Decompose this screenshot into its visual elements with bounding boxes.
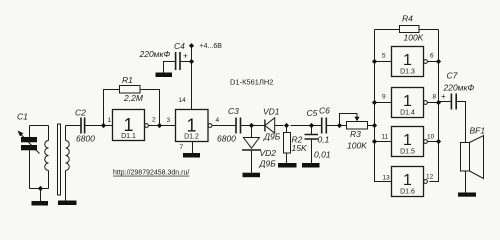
- svg-text:9: 9: [382, 94, 386, 101]
- svg-text:1: 1: [186, 116, 196, 136]
- svg-text:6800: 6800: [217, 134, 236, 144]
- svg-text:R1: R1: [122, 75, 133, 85]
- svg-text:5: 5: [382, 53, 386, 60]
- svg-text:+: +: [441, 92, 446, 101]
- svg-text:+4...6В: +4...6В: [200, 43, 223, 50]
- svg-text:R3: R3: [350, 129, 361, 139]
- svg-text:0,01: 0,01: [314, 150, 331, 160]
- svg-text:D1.3: D1.3: [400, 69, 415, 76]
- svg-text:+: +: [183, 52, 188, 61]
- svg-text:C7: C7: [447, 71, 458, 81]
- svg-text:D1.2: D1.2: [184, 134, 199, 141]
- svg-text:C1: C1: [17, 112, 28, 122]
- svg-text:D1-К561ЛН2: D1-К561ЛН2: [230, 78, 273, 87]
- svg-text:BF1: BF1: [470, 126, 486, 136]
- svg-text:C2: C2: [75, 108, 86, 118]
- svg-text:2,2M: 2,2M: [123, 93, 144, 103]
- svg-text:4: 4: [216, 117, 220, 124]
- svg-text:13: 13: [383, 175, 391, 182]
- svg-text:C6: C6: [319, 106, 330, 116]
- svg-text:12: 12: [426, 174, 434, 181]
- svg-text:1: 1: [403, 132, 412, 149]
- svg-text:1: 1: [403, 93, 412, 110]
- svg-text:14: 14: [179, 97, 187, 104]
- svg-text:VD2: VD2: [260, 148, 277, 158]
- svg-text:Д9Б: Д9Б: [263, 132, 281, 142]
- svg-text:D1.6: D1.6: [400, 189, 415, 196]
- svg-text:Д9Б: Д9Б: [259, 159, 277, 169]
- svg-text:1: 1: [108, 117, 112, 124]
- svg-text:15K: 15K: [292, 143, 307, 153]
- svg-text:D1.5: D1.5: [400, 149, 415, 156]
- svg-text:8: 8: [433, 94, 437, 101]
- svg-text:1: 1: [403, 52, 412, 69]
- svg-text:7: 7: [180, 144, 184, 151]
- svg-text:R4: R4: [402, 14, 413, 24]
- svg-text:11: 11: [382, 134, 389, 141]
- svg-text:C4: C4: [174, 41, 185, 51]
- svg-text:10: 10: [427, 134, 435, 141]
- svg-text:C5: C5: [307, 108, 318, 118]
- svg-text:VD1: VD1: [263, 107, 280, 117]
- svg-text:http://298792458.3dn.ru/: http://298792458.3dn.ru/: [113, 170, 189, 177]
- svg-text:100K: 100K: [347, 141, 367, 151]
- svg-text:C3: C3: [228, 106, 239, 116]
- svg-text:220мкФ: 220мкФ: [139, 49, 171, 59]
- svg-text:1: 1: [403, 172, 412, 189]
- svg-text:220мкФ: 220мкФ: [443, 83, 475, 93]
- svg-text:6800: 6800: [76, 134, 95, 144]
- svg-text:D1.1: D1.1: [121, 133, 136, 140]
- svg-text:0,1: 0,1: [318, 135, 330, 145]
- svg-text:3: 3: [167, 117, 171, 124]
- svg-text:1: 1: [123, 115, 133, 135]
- svg-text:D1.4: D1.4: [400, 110, 415, 117]
- svg-text:100K: 100K: [404, 33, 424, 43]
- svg-text:6: 6: [430, 53, 434, 60]
- svg-text:2: 2: [152, 117, 156, 124]
